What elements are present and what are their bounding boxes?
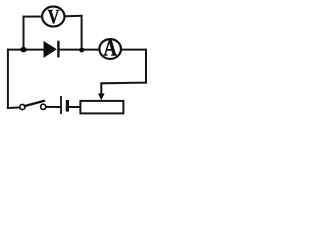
wire left vertical side <box>7 50 9 108</box>
wire bottom-left to switch <box>8 106 21 109</box>
wire right vertical side <box>145 50 147 83</box>
wire ammeter to right corner <box>121 49 146 51</box>
node junction dot left <box>20 47 27 52</box>
battery BT1 positive long plate <box>60 96 62 114</box>
node junction dot right <box>79 48 84 53</box>
diode D1 cathode bar <box>57 41 59 58</box>
battery BT1 negative short thick plate <box>66 100 69 112</box>
rheostat R1 box <box>80 101 123 114</box>
wire switch to battery <box>45 106 60 108</box>
wire top-left vertical drop <box>23 17 25 50</box>
wire voltmeter to top-right corner <box>64 15 81 17</box>
rheostat R1 slider arrow head <box>98 94 105 101</box>
wire top-left horizontal to voltmeter <box>24 16 43 18</box>
switch S1 terminal circle left <box>20 104 25 109</box>
switch S1 terminal circle right <box>41 104 46 109</box>
voltmeter U1 circle <box>42 7 64 27</box>
wire diode to ammeter <box>59 49 100 51</box>
wire top-right vertical drop <box>81 16 83 50</box>
ammeter U2 circle <box>99 39 121 59</box>
wire battery to rheostat <box>69 106 81 108</box>
svg-text:A: A <box>104 36 118 61</box>
diode D1 triangle <box>44 42 56 57</box>
rheostat R1 slider arrow shaft <box>100 83 102 94</box>
svg-text:V: V <box>48 6 60 28</box>
wire middle-left horizontal to diode <box>8 49 44 51</box>
switch S1 blade <box>25 101 44 106</box>
wire rheostat slider feed horizontal <box>101 82 146 85</box>
